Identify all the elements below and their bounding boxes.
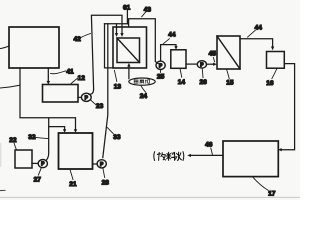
wire from unit 13 bottom corner up to header — [105, 24, 114, 68]
label 14 — [180, 69, 182, 78]
arrow into membrane square — [116, 24, 118, 34]
svg-text:27: 27 — [34, 177, 42, 184]
label 33 — [107, 128, 113, 134]
leader to label 31 (cut off at left edge) — [0, 85, 20, 88]
label 12 — [71, 78, 78, 83]
wire box 16 to tank 17 — [282, 64, 295, 150]
label 16 — [272, 68, 277, 78]
wire 31 (tank 11 down to tank 21) — [20, 68, 76, 130]
wire 46 (drinking water outlet) — [191, 154, 223, 156]
wire box 14 to pump 26 — [186, 63, 197, 65]
tank 11 — [9, 27, 59, 68]
svg-text:61: 61 — [123, 4, 131, 11]
svg-text:42: 42 — [74, 36, 82, 43]
wire 41 (tank 11 to box 12) — [47, 68, 49, 81]
svg-text:15: 15 — [226, 80, 234, 87]
wire header into tank 21 (left arrow) — [49, 127, 65, 130]
label 43 — [142, 12, 146, 16]
svg-text:28: 28 — [102, 180, 110, 187]
svg-text:32: 32 — [28, 134, 36, 141]
svg-text:12: 12 — [78, 75, 86, 82]
label 15 — [227, 69, 230, 78]
svg-text:46: 46 — [205, 141, 213, 148]
pump 27 — [38, 160, 47, 168]
svg-text:45: 45 — [209, 51, 217, 58]
scan streak bottom — [0, 196, 300, 198]
svg-text:22: 22 — [9, 137, 17, 144]
wire 33 (long riser from pump 28) — [103, 24, 108, 158]
svg-text:14: 14 — [178, 79, 186, 86]
svg-text:25: 25 — [157, 73, 165, 80]
blower 24 oval — [129, 78, 155, 85]
box 12 — [43, 85, 79, 103]
label 13 — [114, 70, 116, 81]
wire 42 (pump 23 riser to membrane unit) — [89, 15, 122, 94]
svg-text:23: 23 — [96, 103, 104, 110]
label 27 — [38, 168, 41, 175]
pump 25 — [156, 61, 165, 69]
svg-text:44: 44 — [255, 24, 263, 31]
svg-text:41: 41 — [66, 69, 74, 76]
pump 23 — [78, 96, 81, 98]
scan tick left edge — [0, 189, 5, 191]
label 42 — [81, 34, 91, 38]
label 45 — [213, 58, 214, 62]
feed header wire into unit 13 — [105, 23, 128, 25]
label 22 — [14, 143, 16, 150]
wire 61 (top inlet line) — [126, 10, 128, 23]
label 17 — [253, 177, 269, 191]
svg-text:16: 16 — [266, 80, 274, 87]
box 16 — [267, 52, 285, 69]
label 46 — [211, 148, 213, 154]
wire box 22 to pump 27 — [32, 162, 38, 164]
svg-text:44: 44 — [168, 31, 176, 38]
label 25 — [160, 70, 162, 73]
tank 17 — [223, 141, 278, 177]
svg-text:17: 17 — [268, 191, 276, 198]
tank 21 — [59, 133, 93, 169]
svg-text:13: 13 — [114, 83, 122, 90]
membrane module 15 — [217, 36, 240, 69]
label 26 — [201, 68, 204, 77]
svg-text:33: 33 — [113, 134, 121, 141]
box 14 — [171, 50, 186, 69]
leader to label 11 (cut off at left edge) — [0, 46, 9, 49]
node drinking water text — [154, 152, 184, 161]
label 24 — [141, 85, 146, 92]
wire 44 right (membrane 15 to box 16) — [240, 39, 273, 47]
label 41 — [51, 71, 66, 74]
svg-text:26: 26 — [200, 79, 208, 86]
wire tank 21 to pump 28 — [93, 163, 98, 165]
wire 43 (unit 13 top to pump 25) — [129, 19, 158, 64]
aeration wire from blower 24 — [128, 67, 130, 79]
box 22 — [15, 150, 32, 168]
membrane square in unit 13 — [117, 38, 140, 63]
wire 44 (pump 25 to box 14) — [161, 45, 176, 61]
label 44 left — [163, 39, 170, 45]
svg-text:24: 24 — [140, 93, 148, 100]
label 23 — [91, 100, 96, 105]
unit 13 outer tank — [113, 27, 147, 68]
label 21 — [70, 169, 73, 179]
pump 28 — [97, 160, 106, 168]
label 28 — [103, 168, 105, 177]
wire 45 (pump 26 to membrane 15) — [207, 63, 214, 65]
pump 26 — [197, 61, 206, 68]
label 32 — [35, 137, 48, 138]
blower glyphs — [134, 80, 149, 84]
wire 32 (pump 27 riser) — [46, 118, 49, 161]
label 44 right — [248, 30, 256, 37]
svg-text:21: 21 — [69, 181, 77, 188]
svg-text:43: 43 — [144, 6, 152, 13]
